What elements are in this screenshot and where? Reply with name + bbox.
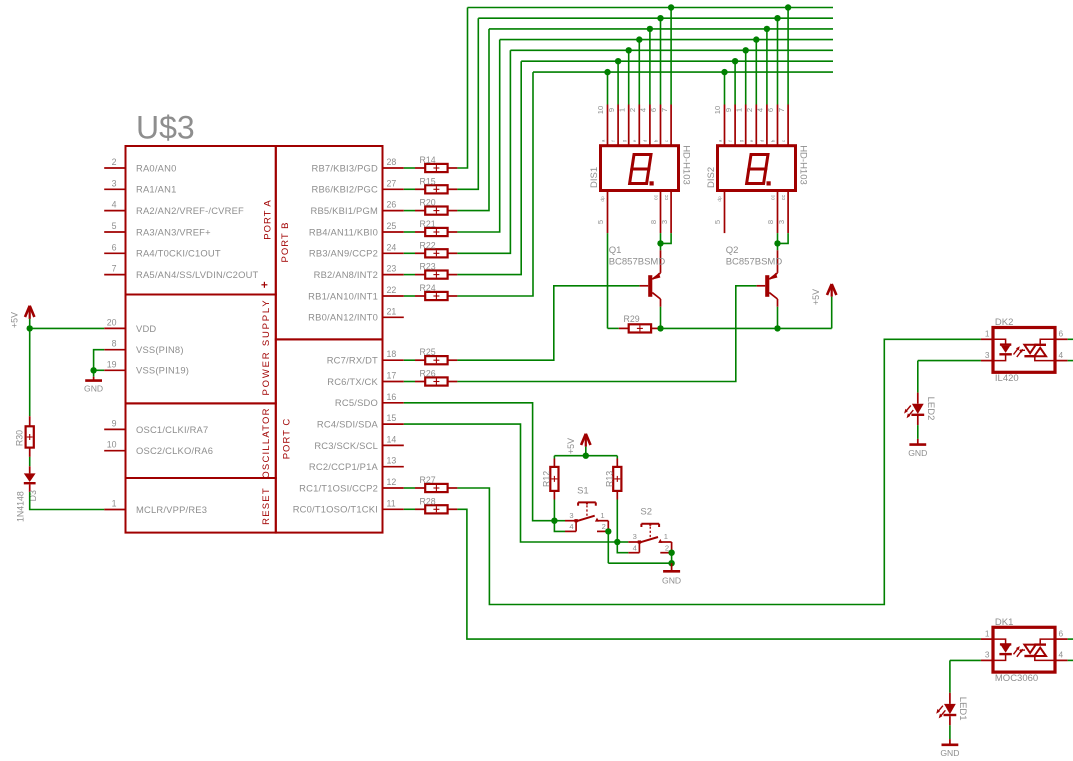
wire bus segment line y=61.2: [521, 60, 833, 62]
svg-text:3: 3: [985, 350, 990, 360]
svg-text:OSCILLATOR: OSCILLATOR: [261, 407, 272, 478]
pin 28 (RB7/KBI3/PGD) of U$3: [312, 157, 404, 173]
wire to LED2: [917, 361, 919, 393]
svg-text:+5V: +5V: [9, 312, 19, 328]
svg-text:cc: cc: [770, 195, 776, 201]
svg-text:6: 6: [649, 108, 658, 112]
optocoupler DK2 light arrows: [1014, 346, 1026, 357]
resistor R12: [550, 456, 558, 500]
svg-text:8: 8: [112, 339, 117, 349]
svg-text:DK2: DK2: [995, 317, 1013, 328]
wire Q1 collector: [660, 307, 662, 329]
svg-text:c: c: [781, 139, 786, 142]
pin 11 (RC0/T1OSO/T1CKI) of U$3: [293, 498, 404, 514]
wire RC5 to S1 node: [404, 403, 555, 521]
wire DK1 pin3 to LED1: [950, 659, 981, 661]
wire R12 to S1: [553, 500, 555, 521]
wire bus segment line y=7.5: [468, 7, 834, 9]
supply +5V (switch area): [581, 434, 590, 447]
resistor R29: [619, 314, 661, 333]
svg-text:1: 1: [600, 511, 604, 520]
ground GND (LED1): [940, 739, 959, 758]
svg-text:13: 13: [387, 456, 397, 466]
svg-text:e: e: [749, 139, 754, 142]
wire R20 to bus line y=28.9: [457, 29, 489, 211]
svg-text:14: 14: [387, 434, 397, 444]
svg-text:RA2/AN2/VREF-/CVREF: RA2/AN2/VREF-/CVREF: [136, 205, 244, 216]
svg-text:3: 3: [660, 220, 669, 224]
resistor R13: [613, 456, 621, 500]
wire DK1 right pins to edge: [1068, 639, 1073, 660]
pin 5 (RA3/AN3/VREF+) of U$3: [104, 221, 211, 237]
svg-text:4: 4: [756, 108, 765, 112]
pin 1 (MCLR/VPP/RE3) of U$3: [104, 499, 207, 515]
svg-text:+5V: +5V: [811, 289, 821, 305]
pin 21 (RB0/AN12/INT0) of U$3: [308, 306, 404, 322]
wire +5V to VDD pin 20: [30, 319, 105, 329]
svg-text:R26: R26: [420, 369, 436, 379]
resistor R25: [415, 347, 457, 364]
svg-text:g: g: [739, 139, 744, 142]
wire Q1 emitter: [660, 243, 662, 250]
svg-text:6: 6: [766, 108, 775, 112]
svg-text:RC1/T1OSI/CCP2: RC1/T1OSI/CCP2: [299, 482, 378, 493]
svg-text:26: 26: [387, 200, 397, 210]
wire R14 to bus line y=7.5: [457, 8, 467, 169]
junction S2 left: [614, 539, 620, 545]
svg-text:a: a: [600, 139, 605, 142]
svg-text:2: 2: [628, 108, 637, 112]
transistor Q2: [757, 250, 778, 307]
svg-text:20: 20: [107, 317, 117, 327]
svg-text:RB4/AN11/KBI0: RB4/AN11/KBI0: [309, 226, 378, 237]
optocoupler DK1 internal LED: [993, 639, 1012, 660]
svg-text:GND: GND: [662, 576, 681, 586]
wire +5V riser right: [831, 297, 833, 329]
svg-text:18: 18: [387, 349, 397, 359]
svg-text:28: 28: [387, 157, 397, 167]
svg-text:MOC3060: MOC3060: [995, 673, 1038, 684]
svg-text:RC2/CCP1/P1A: RC2/CCP1/P1A: [309, 461, 379, 472]
svg-text:DIS1: DIS1: [589, 167, 600, 188]
pin 26 (RB5/KBI1/PGM) of U$3: [310, 200, 403, 216]
svg-text:5: 5: [112, 221, 117, 231]
junction Q2 collector: [774, 325, 780, 331]
wire LED1 to GND: [949, 725, 951, 739]
junction VSS: [90, 367, 96, 373]
svg-text:IL420: IL420: [995, 373, 1019, 384]
wire R22 to bus line y=50.3: [457, 50, 510, 253]
svg-text:GND: GND: [908, 448, 927, 458]
pin 20 (VDD) of U$3: [104, 317, 156, 333]
svg-text:10: 10: [596, 106, 605, 114]
svg-text:RA3/AN3/VREF+: RA3/AN3/VREF+: [136, 226, 211, 237]
pin 22 (RB1/AN10/INT1) of U$3: [308, 285, 404, 301]
wire pin to R23: [404, 274, 415, 276]
switch S1: [565, 502, 608, 531]
wire Q2 emitter: [777, 243, 779, 250]
svg-text:GND: GND: [940, 748, 959, 758]
diode D3: [24, 466, 36, 492]
wire to LED1: [949, 660, 951, 692]
svg-text:RB7/KBI3/PGD: RB7/KBI3/PGD: [312, 162, 379, 173]
svg-text:S2: S2: [640, 507, 652, 518]
junction S1 left: [551, 518, 557, 524]
svg-text:8: 8: [649, 220, 658, 224]
ground GND (left): [84, 377, 103, 394]
svg-text:VDD: VDD: [136, 323, 156, 334]
junction dots of segment bus: [604, 4, 791, 75]
svg-text:RA0/AN0: RA0/AN0: [136, 162, 176, 173]
display DIS1 body: [601, 146, 679, 191]
svg-text:9: 9: [724, 108, 733, 112]
display DIS1 digit 8: [630, 155, 654, 186]
wire LED2 to GND: [917, 425, 919, 439]
pin 9 (OSC1/CLKI/RA7) of U$3: [104, 418, 208, 434]
svg-text:R28: R28: [420, 496, 436, 506]
led LED1: [936, 693, 956, 726]
svg-text:1: 1: [734, 108, 743, 112]
wire RC4 to S2 node: [404, 424, 618, 542]
resistor R26: [415, 369, 457, 386]
svg-text:9: 9: [112, 418, 117, 428]
svg-text:DK1: DK1: [995, 617, 1013, 628]
pin 19 (VSS(PIN19)) of U$3: [104, 359, 189, 375]
wire pin to R24: [404, 295, 415, 297]
svg-text:7: 7: [777, 108, 786, 112]
svg-text:Q2: Q2: [726, 245, 739, 256]
svg-text:LED1: LED1: [957, 697, 968, 721]
svg-text:2: 2: [112, 157, 117, 167]
wire pin to R14: [404, 167, 415, 169]
svg-text:RB2/AN8/INT2: RB2/AN8/INT2: [314, 269, 378, 280]
wire R23 to bus line y=61.2: [457, 61, 521, 274]
wire bus segment line y=18.2: [478, 17, 833, 19]
svg-text:12: 12: [387, 477, 397, 487]
svg-text:R12: R12: [541, 471, 551, 487]
wire +5V down to R30: [29, 328, 31, 416]
svg-text:3: 3: [777, 220, 786, 224]
wire S1 GND run: [608, 562, 671, 564]
svg-text:b: b: [653, 139, 658, 142]
pin labels of S2: [633, 532, 669, 552]
pin 24 (RB3/AN9/CCP2) of U$3: [309, 242, 404, 258]
svg-text:1: 1: [617, 108, 626, 112]
svg-text:4: 4: [1059, 650, 1064, 660]
svg-text:R23: R23: [420, 262, 436, 272]
wire Q2 collector: [777, 307, 779, 329]
pins of DK1: [981, 628, 1068, 660]
pin 7 (RA5/AN4/SS/LVDIN/C2OUT) of U$3: [104, 264, 258, 280]
wire R26 to Q2 base: [457, 286, 756, 382]
display DIS1 bottom pins dp/cc: [596, 191, 671, 234]
wire S2 pin2 to GND node: [671, 553, 673, 564]
svg-text:6: 6: [1059, 628, 1064, 638]
svg-text:R22: R22: [420, 240, 436, 250]
svg-text:R29: R29: [624, 314, 640, 324]
wire R30 to D3: [29, 457, 31, 466]
wire bus segment line y=50.3: [510, 49, 833, 51]
pin 8 (VSS(PIN8)) of U$3: [104, 339, 183, 355]
optocoupler DK1 body: [993, 627, 1055, 672]
svg-text:RA1/AN1: RA1/AN1: [136, 184, 176, 195]
svg-text:9: 9: [607, 108, 616, 112]
svg-text:S1: S1: [577, 485, 589, 496]
svg-text:POWER SUPPLY: POWER SUPPLY: [261, 299, 272, 396]
wire pin12 to R27: [404, 487, 415, 489]
optocoupler DK2 internal LED: [993, 339, 1012, 360]
wire DIS2 common cathode join: [778, 233, 789, 243]
wire +5V to R12/R13: [554, 447, 617, 456]
resistor R21: [415, 219, 457, 236]
svg-text:2: 2: [745, 108, 754, 112]
wire R27 to DK2 pin 1: [457, 339, 981, 604]
pin 12 (RC1/T1OSI/CCP2) of U$3: [299, 477, 404, 493]
resistor R23: [415, 262, 457, 279]
wire bus segment line y=39.6: [500, 39, 833, 41]
svg-text:HD-H103: HD-H103: [681, 145, 692, 185]
pin 18 (RC7/RX/DT) of U$3: [327, 349, 404, 365]
svg-text:10: 10: [713, 106, 722, 114]
svg-text:5: 5: [596, 220, 605, 224]
svg-text:R24: R24: [420, 283, 436, 293]
svg-text:27: 27: [387, 178, 397, 188]
svg-text:DIS2: DIS2: [706, 167, 717, 188]
svg-text:Q1: Q1: [609, 245, 622, 256]
svg-text:6: 6: [1059, 329, 1064, 339]
display DIS2 bottom pins dp/cc: [713, 191, 788, 234]
wire R13 to S2: [616, 500, 618, 543]
resistor R28: [415, 496, 457, 513]
svg-text:dp: dp: [600, 196, 606, 202]
pin 25 (RB4/AN11/KBI0) of U$3: [309, 221, 404, 237]
svg-text:d: d: [760, 139, 765, 142]
svg-text:R20: R20: [420, 198, 436, 208]
svg-text:21: 21: [387, 306, 397, 316]
svg-text:VSS(PIN8): VSS(PIN8): [136, 344, 184, 355]
svg-text:4: 4: [112, 200, 117, 210]
wire pin18 to R25: [404, 359, 415, 361]
svg-text:e: e: [632, 139, 637, 142]
wire R24 to bus line y=72.1: [457, 72, 533, 296]
svg-text:24: 24: [387, 242, 397, 252]
pin 6 (RA4/T0CKI/C1OUT) of U$3: [104, 242, 221, 258]
svg-text:VSS(PIN19): VSS(PIN19): [136, 365, 189, 376]
svg-text:22: 22: [387, 285, 397, 295]
junction S2 pin2: [668, 550, 674, 556]
svg-text:2: 2: [602, 522, 606, 531]
svg-text:OSC2/CLKO/RA6: OSC2/CLKO/RA6: [136, 445, 213, 456]
svg-text:11: 11: [387, 498, 396, 508]
svg-text:f: f: [611, 140, 616, 142]
svg-text:4: 4: [633, 544, 637, 553]
svg-text:d: d: [643, 139, 648, 142]
junction switches GND: [668, 560, 674, 566]
svg-text:MCLR/VPP/RE3: MCLR/VPP/RE3: [136, 504, 207, 515]
svg-text:R15: R15: [420, 176, 436, 186]
ground GND (switch area): [662, 563, 681, 585]
svg-text:1: 1: [112, 499, 117, 509]
wire pin to R15: [404, 188, 415, 190]
svg-text:4: 4: [639, 108, 648, 112]
svg-text:b: b: [770, 139, 775, 142]
wire pin11 to R28: [404, 508, 415, 510]
svg-text:RC5/SDO: RC5/SDO: [335, 397, 378, 408]
svg-text:15: 15: [387, 413, 397, 423]
display DIS2 digit 8: [747, 155, 771, 186]
resistor R14: [415, 155, 457, 172]
svg-text:BC857BSMD: BC857BSMD: [726, 257, 783, 268]
svg-text:R14: R14: [420, 155, 436, 165]
supply +5V (right): [827, 284, 836, 297]
svg-text:RESET: RESET: [261, 487, 272, 525]
wire DK2 right pins to edge: [1068, 339, 1073, 360]
svg-text:7: 7: [660, 108, 669, 112]
svg-text:4: 4: [569, 522, 573, 531]
svg-text:g: g: [622, 139, 627, 142]
optocoupler DK2 triac: [1024, 339, 1055, 360]
resistor R20: [415, 198, 457, 215]
svg-text:7: 7: [112, 264, 117, 274]
wire emitter rail to +5V: [661, 327, 832, 329]
svg-text:19: 19: [107, 359, 117, 369]
svg-text:1: 1: [985, 329, 990, 339]
svg-text:2: 2: [665, 544, 669, 553]
svg-text:U$3: U$3: [136, 110, 195, 146]
junction +5V left: [27, 325, 33, 331]
origin cross of U$3: [261, 282, 267, 288]
junction R29 / Q1 collector: [657, 325, 663, 331]
optocoupler DK1 triac: [1024, 639, 1055, 660]
svg-text:3: 3: [633, 532, 637, 541]
switch S2: [628, 524, 671, 553]
wire pin to R21: [404, 231, 415, 233]
svg-text:HD-H103: HD-H103: [798, 145, 809, 185]
svg-text:3: 3: [985, 650, 990, 660]
svg-text:1: 1: [664, 532, 668, 541]
pin 23 (RB2/AN8/INT2) of U$3: [314, 264, 404, 280]
svg-text:RC3/SCK/SCL: RC3/SCK/SCL: [314, 440, 378, 451]
wire DIS1 common cathode join: [661, 233, 672, 243]
svg-text:23: 23: [387, 264, 397, 274]
svg-text:RC6/TX/CK: RC6/TX/CK: [327, 376, 378, 387]
wire pin17 to R26: [404, 381, 415, 383]
junction DIS1 cc: [657, 240, 663, 246]
pin 3 (RA1/AN1) of U$3: [104, 178, 176, 194]
svg-text:R25: R25: [420, 347, 436, 357]
display DIS2 top pins: [713, 105, 788, 146]
svg-text:OSC1/CLKI/RA7: OSC1/CLKI/RA7: [136, 424, 208, 435]
svg-text:LED2: LED2: [925, 397, 936, 421]
svg-text:PORT B: PORT B: [280, 221, 291, 262]
svg-text:cc: cc: [653, 195, 659, 201]
display DIS2 body: [718, 146, 796, 191]
svg-text:RA4/T0CKI/C1OUT: RA4/T0CKI/C1OUT: [136, 248, 221, 259]
svg-text:6: 6: [112, 242, 117, 252]
svg-text:R27: R27: [420, 475, 436, 485]
display DIS1 top pins: [596, 105, 671, 146]
svg-text:dp: dp: [717, 196, 723, 202]
svg-text:PORT A: PORT A: [262, 199, 273, 240]
resistor R27: [415, 475, 457, 492]
wire VSS pins to GND: [94, 350, 105, 377]
svg-text:16: 16: [387, 392, 397, 402]
svg-text:cc: cc: [781, 195, 787, 201]
svg-text:+5V: +5V: [566, 438, 576, 454]
transistor Q1: [640, 250, 661, 307]
svg-text:25: 25: [387, 221, 397, 231]
pin 17 (RC6/TX/CK) of U$3: [327, 371, 404, 387]
svg-text:R21: R21: [420, 219, 436, 229]
svg-text:3: 3: [569, 511, 573, 520]
optocoupler DK1 light arrows: [1014, 646, 1026, 657]
svg-text:R30: R30: [14, 430, 24, 446]
svg-text:GND: GND: [84, 384, 103, 394]
svg-text:1: 1: [985, 628, 990, 638]
wire RC5/R12 node to S1: [554, 521, 565, 532]
junction S1 pin2: [605, 528, 611, 534]
svg-text:R13: R13: [604, 471, 614, 487]
wire S1 pin2 down: [607, 531, 609, 563]
svg-text:RC0/T1OSO/T1CKI: RC0/T1OSO/T1CKI: [293, 504, 378, 515]
pin 13 (RC2/CCP1/P1A) of U$3: [309, 456, 404, 472]
svg-text:8: 8: [766, 220, 775, 224]
pins of DK2: [981, 329, 1068, 361]
svg-text:BC857BSMD: BC857BSMD: [609, 257, 666, 268]
wire DIS1 dp pin to R29: [608, 233, 619, 328]
svg-text:17: 17: [387, 371, 397, 381]
svg-text:RA5/AN4/SS/LVDIN/C2OUT: RA5/AN4/SS/LVDIN/C2OUT: [136, 269, 259, 280]
svg-text:RB1/AN10/INT1: RB1/AN10/INT1: [308, 290, 378, 301]
resistor R15: [415, 176, 457, 193]
wire bus segment line y=28.9: [489, 28, 833, 30]
resistor R30: [26, 416, 34, 457]
junction +5V switch area: [583, 453, 589, 459]
optocoupler DK2 body: [993, 328, 1055, 373]
svg-text:f: f: [728, 140, 733, 142]
svg-text:RB5/KBI1/PGM: RB5/KBI1/PGM: [310, 205, 378, 216]
display DIS2 top pin wires: [725, 8, 789, 105]
svg-text:c: c: [664, 139, 669, 142]
svg-text:RC7/RX/DT: RC7/RX/DT: [327, 355, 378, 366]
led LED2: [904, 393, 924, 426]
wire D3 to MCLR pin 1: [30, 492, 105, 510]
svg-text:PORT C: PORT C: [282, 418, 293, 460]
wire pin to R22: [404, 252, 415, 254]
svg-text:4: 4: [1059, 350, 1064, 360]
pin 16 (RC5/SDO) of U$3: [335, 392, 404, 408]
wire R21 to bus line y=39.6: [457, 40, 499, 232]
resistor R22: [415, 240, 457, 257]
supply +5V (left): [25, 306, 34, 319]
pin 27 (RB6/KBI2/PGC) of U$3: [312, 178, 404, 194]
display DIS1 top pin wires: [608, 8, 672, 105]
svg-text:3: 3: [112, 178, 117, 188]
svg-text:RB6/KBI2/PGC: RB6/KBI2/PGC: [312, 184, 379, 195]
pin labels of S1: [569, 511, 605, 531]
ground GND (LED2): [908, 439, 927, 458]
ic U$3 body outline: [126, 146, 383, 533]
pin 2 (RA0/AN0) of U$3: [104, 157, 176, 173]
wire RC4/R13 node to S2: [617, 542, 628, 553]
svg-text:RC4/SDI/SDA: RC4/SDI/SDA: [317, 419, 379, 430]
wire pin to R20: [404, 210, 415, 212]
wire R15 to bus line y=18.2: [457, 18, 478, 189]
wire R25 to Q1 base: [457, 286, 639, 360]
svg-text:RB3/AN9/CCP2: RB3/AN9/CCP2: [309, 248, 378, 259]
pin 4 (RA2/AN2/VREF-/CVREF) of U$3: [104, 200, 244, 216]
pin 14 (RC3/SCK/SCL) of U$3: [314, 434, 403, 450]
